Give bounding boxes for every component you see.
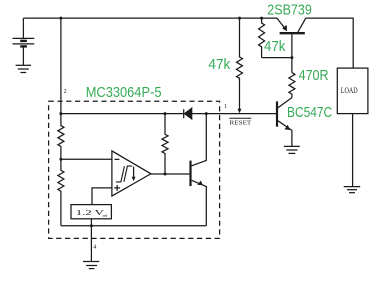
diode D1	[184, 108, 192, 119]
junction node dots	[59, 17, 293, 228]
wire R2 to Q1 base	[262, 57, 292, 59]
ground (battery)	[16, 65, 31, 72]
svg-text:ref: ref	[103, 213, 108, 218]
svg-text:2SB739: 2SB739	[267, 1, 312, 18]
arrow onto reset node	[238, 109, 242, 114]
wire comparator output	[151, 173, 190, 175]
transistor Q1 2SB739	[277, 18, 306, 73]
ground (load)	[344, 187, 361, 193]
svg-text:47k: 47k	[208, 56, 230, 73]
resistor divider lower	[58, 159, 64, 226]
resistor divider upper	[58, 114, 64, 160]
wire internal Vcc rail	[61, 113, 183, 115]
svg-text:LOAD: LOAD	[341, 86, 358, 95]
svg-text:47k: 47k	[264, 38, 286, 55]
svg-text:RESET: RESET	[230, 119, 252, 126]
wire internal ground rail	[61, 225, 206, 227]
svg-text:1: 1	[224, 103, 227, 110]
svg-text:4: 4	[93, 243, 96, 250]
wire top rail right segment	[306, 18, 353, 68]
svg-text:2: 2	[64, 88, 67, 95]
ground (pin 4)	[83, 262, 99, 269]
svg-text:BC547C: BC547C	[287, 104, 332, 121]
transistor internal Q3	[191, 114, 207, 226]
reset overline	[229, 117, 251, 119]
wire top rail left segment	[23, 17, 277, 19]
wire Vcc drop to pin 2	[60, 18, 62, 114]
svg-text:1.2 V: 1.2 V	[76, 208, 105, 217]
resistor internal pull-up	[162, 114, 168, 174]
wire plus input	[92, 188, 112, 205]
resistor R1 47k pull-up to reset	[237, 18, 243, 109]
wire load to ground	[352, 114, 354, 187]
load box	[337, 68, 368, 114]
arrow inside comparator	[132, 167, 136, 182]
reference box 1.2V	[71, 205, 111, 219]
ground (Q2 emitter)	[284, 146, 300, 153]
battery B1	[13, 18, 35, 65]
resistor R3 470R	[289, 73, 295, 98]
svg-text:MC33064P-5: MC33064P-5	[86, 84, 162, 101]
IC box U1 dashed outline	[49, 101, 220, 238]
op-amp comparator	[112, 151, 151, 196]
resistor R2 47k base pull-up	[259, 18, 265, 58]
transistor Q2 BC547C	[277, 98, 292, 147]
hysteresis symbol	[116, 166, 132, 182]
wire reference to ground rail	[90, 219, 92, 261]
svg-text:470R: 470R	[299, 67, 329, 84]
wire minus input	[61, 158, 112, 160]
wire reset net (diode to Q2 base)	[192, 113, 277, 115]
